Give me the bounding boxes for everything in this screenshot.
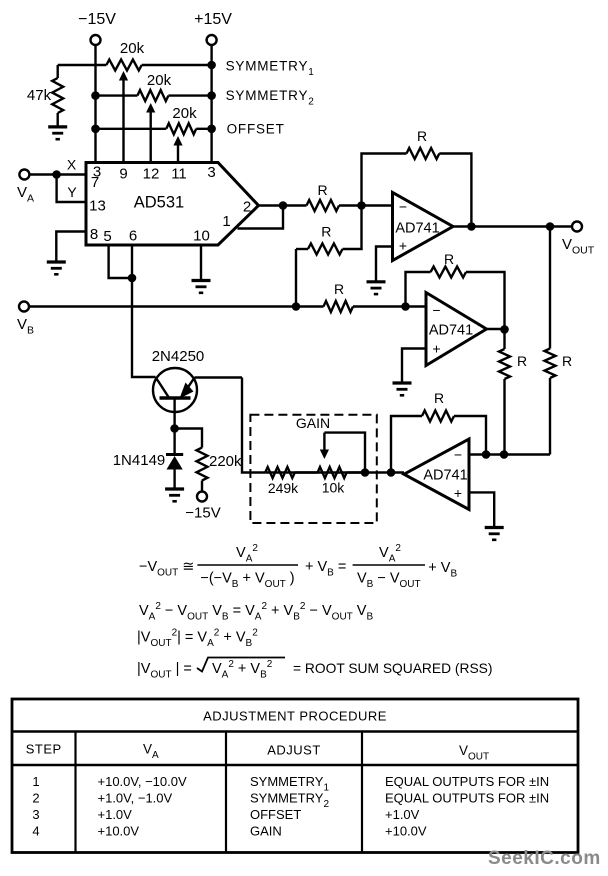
node op-amp U3 output xyxy=(500,325,509,334)
wire -15V rail down to AD531 pin 3 xyxy=(94,45,96,162)
svg-text:VA2: VA2 xyxy=(236,543,258,565)
svg-text:−15V: −15V xyxy=(78,11,116,28)
svg-text:SeekIC.com: SeekIC.com xyxy=(488,848,601,869)
wiper arrow of OFFSET pot to AD531 pin 11 xyxy=(177,141,179,162)
svg-text:+ VB: + VB xyxy=(428,560,457,580)
resistor R from VOUT down to summing line xyxy=(549,227,551,349)
svg-text:GAIN: GAIN xyxy=(250,824,282,839)
wire AD531 pin 10 to ground xyxy=(200,245,202,281)
ground below 47k xyxy=(48,125,67,128)
svg-text:249k: 249k xyxy=(268,480,299,496)
svg-text:+ VB =: + VB = xyxy=(305,559,346,579)
svg-text:+: + xyxy=(399,238,407,254)
node R chain junction on summing line xyxy=(500,450,509,459)
wiper arrow of SYMMETRY2 pot to AD531 pin 12 xyxy=(149,108,151,162)
svg-text:ADJUST: ADJUST xyxy=(267,743,321,758)
wire transistor base down to diode node xyxy=(173,398,175,429)
svg-text:13: 13 xyxy=(89,198,106,215)
potentiometer SYMMETRY2 20k xyxy=(96,94,138,96)
svg-text:SYMMETRY1: SYMMETRY1 xyxy=(226,59,315,79)
op-amp U3 AD741 xyxy=(426,293,487,366)
ground at op-amp U2 + input xyxy=(367,280,386,283)
svg-text:+1.0V, −1.0V: +1.0V, −1.0V xyxy=(98,791,173,806)
svg-text:VA2: VA2 xyxy=(379,543,401,565)
ground at pin 10 xyxy=(192,279,211,282)
svg-text:+10.0V, −10.0V: +10.0V, −10.0V xyxy=(98,774,187,789)
wire transistor emitter to gain network xyxy=(195,376,243,378)
wire op-amp U2 non-inverting input to ground xyxy=(376,247,393,282)
node VA junction xyxy=(52,170,61,179)
wire VB branch down to VB line xyxy=(295,249,297,307)
wiper arrow of SYMMETRY1 pot to AD531 pin 9 xyxy=(122,76,124,162)
op-amp U4 AD741 (output points left) xyxy=(404,439,469,510)
svg-text:EQUAL OUTPUTS FOR ±IN: EQUAL OUTPUTS FOR ±IN xyxy=(385,791,549,806)
svg-text:+: + xyxy=(454,485,462,501)
svg-text:AD741: AD741 xyxy=(423,468,467,484)
svg-text:−: − xyxy=(432,302,440,318)
node pins 5-6 junction xyxy=(128,274,137,283)
svg-text:VA2 + VB2: VA2 + VB2 xyxy=(212,659,273,681)
svg-text:AD741: AD741 xyxy=(429,323,473,339)
svg-text:+1.0V: +1.0V xyxy=(98,807,133,822)
wire op-amp U3 output xyxy=(487,328,505,330)
svg-text:VOUT: VOUT xyxy=(562,236,595,257)
ground at pin 8 xyxy=(47,260,66,263)
ground below 1N4149 xyxy=(165,487,184,490)
svg-text:GAIN: GAIN xyxy=(296,415,330,431)
svg-text:= ROOT SUM SQUARED (RSS): = ROOT SUM SQUARED (RSS) xyxy=(293,661,492,676)
svg-text:VB − VOUT: VB − VOUT xyxy=(357,571,421,591)
svg-text:3: 3 xyxy=(32,807,39,822)
junction dots on -15V rail xyxy=(91,91,100,100)
svg-text:R: R xyxy=(334,281,344,297)
svg-text:OFFSET: OFFSET xyxy=(227,122,285,137)
svg-text:R: R xyxy=(562,353,572,369)
svg-text:ADJUSTMENT PROCEDURE: ADJUSTMENT PROCEDURE xyxy=(203,709,387,724)
wire 10k wiper to output node xyxy=(324,433,365,473)
wire AD531 pin 8 to ground xyxy=(56,232,86,263)
svg-text:7: 7 xyxy=(91,174,99,191)
svg-text:20k: 20k xyxy=(172,105,197,122)
wire AD531 output pin 2 to node xyxy=(259,204,284,206)
svg-text:11: 11 xyxy=(171,166,187,183)
resistor 47k xyxy=(57,65,59,78)
wire +15V rail down to AD531 pin 3 xyxy=(210,45,212,162)
wire VA to Y input xyxy=(57,175,86,203)
svg-text:20k: 20k xyxy=(120,40,145,57)
node VB junction at branch xyxy=(292,302,301,311)
svg-text:+10.0V: +10.0V xyxy=(98,824,140,839)
svg-text:|VOUT2| = VA2 + VB2: |VOUT2| = VA2 + VB2 xyxy=(137,628,258,650)
ground at op-amp U4 + input xyxy=(485,526,504,529)
wire op-amp U2 output to VOUT xyxy=(453,225,572,227)
svg-text:R: R xyxy=(317,182,327,198)
svg-text:R: R xyxy=(444,251,454,267)
svg-text:−15V: −15V xyxy=(185,505,220,522)
svg-text:EQUAL OUTPUTS FOR ±IN: EQUAL OUTPUTS FOR ±IN xyxy=(385,774,549,789)
resistor 220k xyxy=(175,429,202,448)
svg-text:12: 12 xyxy=(143,166,160,183)
svg-text:6: 6 xyxy=(129,228,137,245)
svg-text:2N4250: 2N4250 xyxy=(152,348,205,365)
svg-text:47k: 47k xyxy=(27,87,52,104)
svg-text:2: 2 xyxy=(32,791,39,806)
transistor Q1 2N4250 xyxy=(153,368,197,412)
potentiometer OFFSET 20k xyxy=(96,128,167,130)
wire pin 6 node down to transistor base branch xyxy=(132,278,156,377)
svg-text:VB: VB xyxy=(17,316,34,337)
svg-text:10k: 10k xyxy=(322,480,346,496)
svg-text:3: 3 xyxy=(207,164,215,181)
wiper arrow of 10k pot xyxy=(323,433,325,454)
resistor 249k xyxy=(265,467,295,478)
node base-diode junction xyxy=(170,424,179,433)
node multiplier output xyxy=(279,201,288,210)
svg-text:1: 1 xyxy=(222,213,230,230)
svg-text:10: 10 xyxy=(193,228,210,245)
svg-text:−VOUT ≅: −VOUT ≅ xyxy=(139,559,194,579)
svg-text:1N4149: 1N4149 xyxy=(113,452,166,469)
svg-text:2: 2 xyxy=(243,199,251,216)
svg-text:R: R xyxy=(321,224,331,240)
resistor R feedback of op-amp U2 xyxy=(362,154,407,206)
svg-text:9: 9 xyxy=(119,166,127,183)
wire op-amp U4 non-inverting input to ground xyxy=(469,492,494,527)
svg-text:Y: Y xyxy=(67,184,77,200)
wire AD531 pins 5 and 6 joined xyxy=(109,245,132,278)
svg-text:VA: VA xyxy=(143,742,159,762)
summing line into op-amp U4 inverting input xyxy=(469,453,550,455)
adjustment procedure table xyxy=(12,699,578,853)
svg-text:20k: 20k xyxy=(147,72,172,89)
svg-text:SYMMETRY2: SYMMETRY2 xyxy=(226,88,315,108)
output terminal VOUT xyxy=(572,222,582,232)
svg-text:VOUT: VOUT xyxy=(459,743,489,763)
svg-text:X: X xyxy=(67,157,77,173)
svg-text:+: + xyxy=(432,341,440,357)
node feedback takeoff on U4 output xyxy=(387,468,396,477)
power terminal -15V xyxy=(91,35,101,45)
ground at op-amp U3 + input xyxy=(393,381,412,384)
svg-text:5: 5 xyxy=(103,228,111,245)
svg-text:AD741: AD741 xyxy=(395,221,439,237)
wire AD531 pin 1 feedback loop xyxy=(238,206,284,229)
svg-text:+1.0V: +1.0V xyxy=(385,807,420,822)
input terminal VA xyxy=(19,170,29,180)
diode D1 1N4149 xyxy=(173,429,175,455)
potentiometer 10k xyxy=(318,467,347,478)
resistor R from VB node to op-amp U2 inverting input xyxy=(296,248,308,250)
resistor R feedback of op-amp U4 xyxy=(391,416,422,473)
op-amp U2 AD741 xyxy=(393,193,454,261)
svg-text:VA2 − VOUT VB = VA2 + VB2 − VO: VA2 − VOUT VB = VA2 + VB2 − VOUT VB xyxy=(139,601,373,623)
svg-text:220k: 220k xyxy=(209,453,242,470)
power terminal -15V at 220k xyxy=(197,492,207,502)
resistor R input to op-amp U2 xyxy=(283,204,307,206)
svg-text:R: R xyxy=(417,128,427,144)
svg-text:R: R xyxy=(517,353,527,369)
svg-text:−: − xyxy=(399,199,407,215)
node feedback junction on summing line xyxy=(482,450,491,459)
wire op-amp U3 non-inverting input to ground xyxy=(402,349,426,384)
svg-text:|VOUT | =: |VOUT | = xyxy=(137,661,192,681)
svg-text:+15V: +15V xyxy=(194,11,232,28)
wire 249k left end to transistor collector xyxy=(242,378,265,473)
node VOUT junction xyxy=(546,222,555,231)
junction dots on +15V rail xyxy=(207,61,216,70)
svg-text:−: − xyxy=(454,447,462,463)
wire VA to X input xyxy=(29,173,86,175)
dashed GAIN adjust box xyxy=(250,415,376,523)
node 10k wiper junction xyxy=(361,468,370,477)
wire op-amp U4 output line to gain network xyxy=(265,471,404,473)
resistor R on VB line to op-amp U3 xyxy=(324,301,354,312)
node op-amp U2 inverting input xyxy=(357,201,366,210)
svg-text:R: R xyxy=(434,390,444,406)
node op-amp U2 output xyxy=(467,222,476,231)
svg-text:AD531: AD531 xyxy=(134,194,184,212)
svg-text:OFFSET: OFFSET xyxy=(250,807,301,822)
power terminal +15V xyxy=(207,35,217,45)
potentiometer SYMMETRY1 20k xyxy=(58,64,107,66)
wire VB line to op-amp U3 inverting input xyxy=(29,305,324,307)
resistor R feedback of op-amp U3 xyxy=(406,272,431,307)
multiplier U1 AD531 xyxy=(86,163,259,246)
svg-text:8: 8 xyxy=(90,226,98,243)
svg-text:1: 1 xyxy=(32,774,39,789)
svg-text:+10.0V: +10.0V xyxy=(385,824,427,839)
svg-text:4: 4 xyxy=(32,824,39,839)
svg-text:−(−VB + VOUT ): −(−VB + VOUT ) xyxy=(200,571,294,591)
resistor R from U3 output down to summing line xyxy=(503,329,505,349)
input terminal VB xyxy=(19,302,29,312)
svg-text:VA: VA xyxy=(17,184,34,205)
svg-text:STEP: STEP xyxy=(26,742,62,757)
node op-amp U3 inverting input xyxy=(401,302,410,311)
